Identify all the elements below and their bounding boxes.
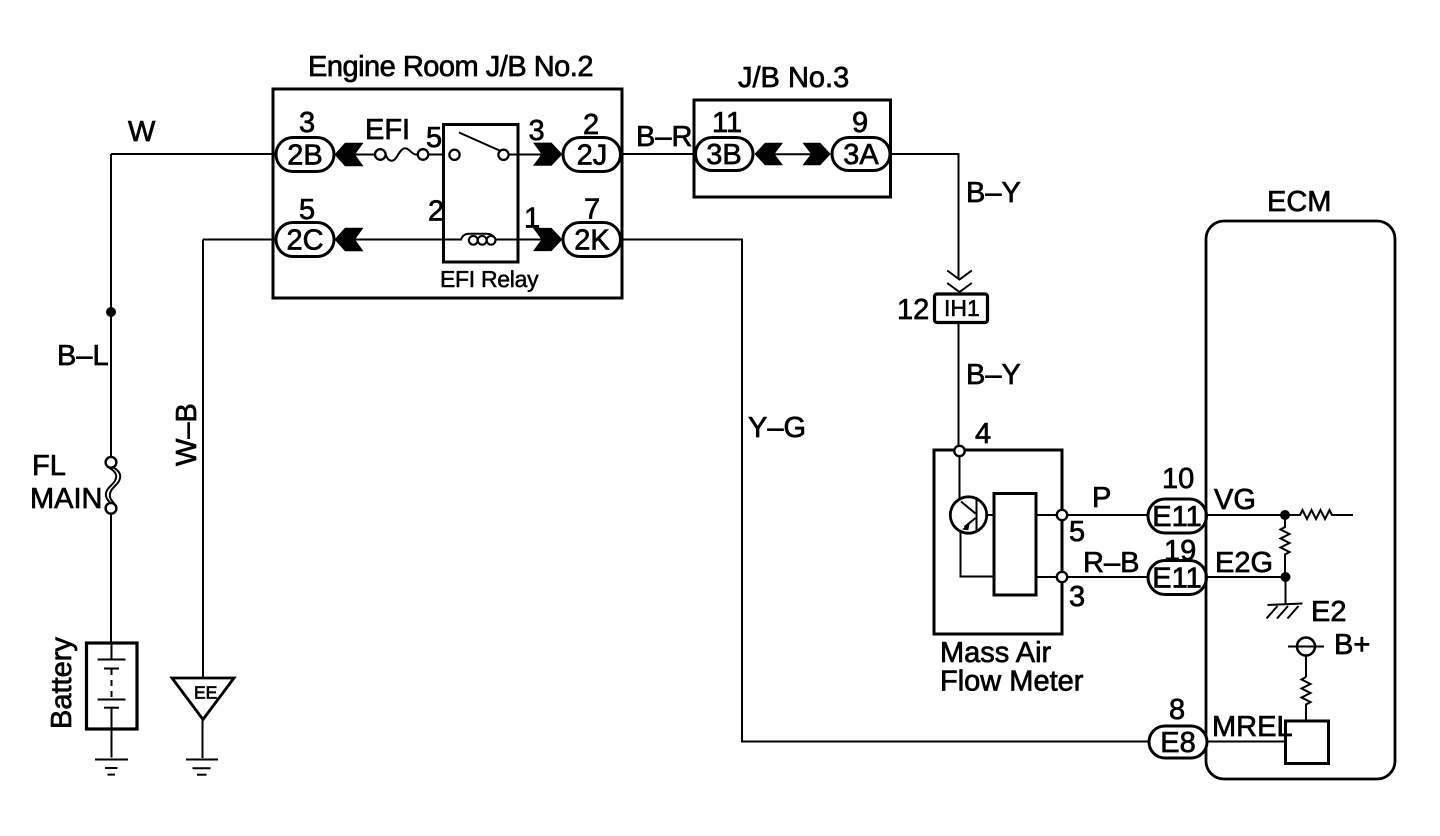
resistor (horizontal): [1285, 510, 1353, 519]
wire W horizontal: [111, 153, 277, 155]
svg-text:E8: E8: [1160, 727, 1195, 759]
arrow at 2C (left): [335, 228, 364, 252]
wire VG: [1206, 514, 1285, 516]
B+ symbol: [1288, 646, 1324, 648]
svg-text:E11: E11: [1152, 501, 1201, 533]
relay switch blade: [459, 133, 500, 151]
svg-text:IH1: IH1: [944, 295, 980, 321]
svg-text:B–L: B–L: [57, 340, 109, 372]
svg-text:4: 4: [975, 418, 991, 450]
resistor (B+ to relay driver): [1302, 677, 1311, 721]
battery box: [87, 643, 138, 729]
svg-text:R–B: R–B: [1083, 547, 1139, 579]
battery cell link (dashed): [111, 669, 113, 699]
svg-text:12: 12: [897, 294, 929, 326]
wire EE to ground: [202, 719, 204, 758]
svg-text:2K: 2K: [574, 225, 610, 257]
chevron arrows into IH1: [947, 271, 972, 280]
wire battery to ground: [111, 729, 113, 758]
svg-text:W: W: [128, 116, 156, 148]
relay box EFI Relay: [444, 125, 519, 263]
svg-text:VG: VG: [1214, 484, 1256, 516]
arrow to 2K (right): [533, 228, 562, 251]
relay coil: [461, 234, 496, 240]
svg-text:EFI Relay: EFI Relay: [440, 266, 539, 292]
junction box J/B No.3: [694, 100, 891, 197]
svg-text:11: 11: [712, 107, 742, 139]
fuse EFI left terminal: [375, 149, 386, 160]
transistor (MAF sensor): [950, 497, 986, 533]
connector 2J: [563, 138, 621, 172]
node 4 terminal: [954, 446, 964, 456]
svg-text:3: 3: [299, 107, 315, 139]
svg-text:10: 10: [1162, 463, 1194, 495]
svg-text:E11: E11: [1152, 563, 1201, 595]
fuse EFI right terminal: [418, 149, 429, 160]
fuse FL MAIN top terminal: [106, 457, 117, 468]
svg-text:EFI: EFI: [365, 114, 410, 146]
transistor base wire: [987, 514, 994, 516]
svg-text:FL: FL: [32, 450, 66, 482]
ground (EE): [186, 759, 218, 761]
wire 3A right then down: [891, 154, 959, 279]
svg-text:Engine Room J/B No.2: Engine Room J/B No.2: [308, 51, 593, 83]
svg-text:EE: EE: [194, 683, 217, 703]
connector 2C: [276, 223, 334, 257]
svg-text:Flow Meter: Flow Meter: [940, 666, 1084, 698]
relay driver box: [1286, 721, 1329, 764]
svg-text:2C: 2C: [286, 225, 323, 257]
wire fuse to relay: [428, 154, 455, 156]
terminal 5: [1057, 510, 1067, 520]
transistor emitter wire: [961, 532, 995, 577]
svg-text:W–B: W–B: [171, 403, 203, 466]
svg-text:5: 5: [426, 122, 442, 154]
svg-text:2: 2: [428, 196, 444, 228]
wire Y-G from 2K: [620, 240, 1149, 742]
node junction dot on B-L wire: [106, 307, 116, 317]
connector 3B: [696, 138, 754, 171]
terminal 3: [1057, 572, 1067, 582]
battery cell 1: [111, 644, 113, 660]
svg-text:B–R: B–R: [636, 121, 692, 153]
resistor (vertical between VG and E2G): [1281, 515, 1290, 577]
svg-text:5: 5: [1069, 516, 1085, 548]
svg-text:MAIN: MAIN: [30, 483, 103, 515]
arrow to 2J (right): [533, 143, 562, 166]
svg-text:3B: 3B: [706, 139, 741, 171]
connector 2K: [563, 223, 621, 257]
svg-text:Y–G: Y–G: [748, 412, 806, 444]
wire relay to arrow: [509, 154, 543, 156]
relay switch right contact: [498, 150, 508, 160]
junction box Engine Room J/B No.2: [273, 89, 622, 298]
svg-text:3A: 3A: [843, 139, 879, 171]
wire W-B horizontal: [203, 239, 277, 241]
wire terminal 5 to E11: [1067, 514, 1149, 516]
wire 2C arrow to relay coil: [352, 239, 462, 241]
fuse FL MAIN element: [106, 468, 116, 503]
fuse EFI element: [386, 148, 418, 161]
wire E2G: [1206, 576, 1286, 578]
svg-text:Battery: Battery: [46, 637, 78, 729]
svg-text:Mass Air: Mass Air: [940, 637, 1052, 669]
svg-text:3: 3: [529, 115, 545, 147]
wire between arrows: [772, 153, 813, 155]
svg-text:P: P: [1092, 482, 1111, 514]
wire 2J to 3B: [620, 153, 696, 155]
svg-text:E2G: E2G: [1215, 547, 1273, 579]
wire W vertical (battery feed): [110, 154, 112, 457]
node E2G junction: [1281, 572, 1291, 582]
relay switch left contact: [449, 150, 459, 160]
Mass Air Flow Meter box: [934, 450, 1062, 634]
connector E11 (VG): [1148, 499, 1207, 533]
wire to ground E2: [1285, 577, 1287, 604]
connector IH1: [935, 294, 988, 323]
fuse FL MAIN bottom terminal: [106, 503, 117, 514]
wire terminal 3 to E11: [1067, 576, 1149, 578]
ground (battery): [95, 759, 128, 761]
svg-text:B–Y: B–Y: [966, 177, 1021, 209]
wire W-B vertical: [202, 240, 204, 679]
wire element to terminal 5: [1036, 514, 1057, 516]
wire coil to arrow: [496, 239, 544, 241]
svg-text:ECM: ECM: [1267, 186, 1331, 218]
svg-text:2J: 2J: [577, 140, 608, 172]
wire node 4 to transistor: [959, 456, 961, 499]
svg-text:MREL: MREL: [1212, 711, 1293, 743]
wire fuse to battery: [110, 514, 112, 643]
wire IH1 to node 4: [958, 323, 960, 447]
svg-text:E2: E2: [1311, 596, 1346, 628]
arrow at 3A (right): [803, 143, 831, 166]
arrow at 3B (left): [755, 143, 784, 166]
svg-text:9: 9: [852, 107, 868, 139]
connector 2B: [276, 138, 334, 172]
wire E8 to relay driver: [1207, 741, 1286, 743]
svg-text:8: 8: [1169, 694, 1185, 726]
svg-text:3: 3: [1069, 581, 1085, 613]
svg-text:J/B No.3: J/B No.3: [738, 62, 849, 94]
connector 3A: [832, 138, 890, 171]
arrow at 2B (left): [335, 143, 364, 167]
connector E11 (E2G): [1148, 561, 1207, 595]
svg-text:7: 7: [584, 194, 600, 226]
MAF element rectangle: [994, 494, 1036, 596]
wire arrow to fuse: [352, 154, 375, 156]
svg-text:B–Y: B–Y: [966, 359, 1021, 391]
ground triangle EE: [172, 678, 234, 720]
connector E8: [1149, 726, 1207, 758]
wire B+ to resistor: [1305, 656, 1307, 678]
battery cell 2: [98, 699, 126, 701]
ground E2 (chassis): [1268, 604, 1303, 606]
svg-text:B+: B+: [1334, 629, 1370, 661]
ECM box: [1206, 221, 1395, 779]
node VG junction: [1280, 510, 1290, 520]
svg-text:2B: 2B: [287, 140, 322, 172]
wire element to terminal 3: [1036, 576, 1057, 578]
